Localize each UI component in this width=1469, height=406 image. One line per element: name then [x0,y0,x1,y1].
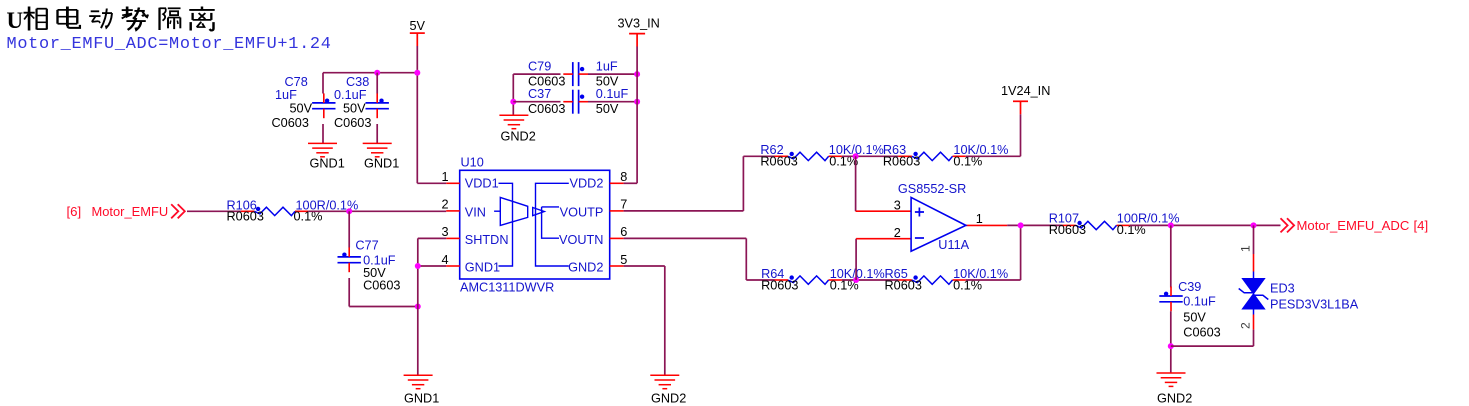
svg-text:U: U [7,8,24,33]
wire C78 top [322,73,324,94]
wire GND1 net vertical [417,238,419,375]
svg-text:R0603: R0603 [883,155,920,169]
junction output / feedback [1018,222,1024,228]
svg-text:50V: 50V [596,102,619,116]
capacitor C77 pins [348,247,350,257]
wire ED3 bottom [1253,330,1255,347]
IC U10 box [460,170,610,279]
capacitor C37 pins [563,101,573,103]
wire 5V to U10 pin1 [417,182,446,184]
svg-text:C0603: C0603 [1183,326,1220,340]
junction C38 top [374,70,380,76]
svg-text:Motor_EMFU_ADC: Motor_EMFU_ADC [1297,218,1410,233]
svg-text:50V: 50V [1183,310,1206,324]
junction opamp + feed [853,153,859,159]
svg-text:C0603: C0603 [334,116,371,130]
U10 internal output buffer triangle [533,208,545,216]
title char 相 [24,7,47,31]
wire R65 to output feedback [966,279,1021,281]
resistor R64 body [788,276,829,284]
capacitor C38 pins [376,93,378,103]
svg-text:50V: 50V [596,74,619,88]
title char 隔 [160,8,181,30]
wire C38 to GND1 [376,124,378,143]
svg-text:C0603: C0603 [272,116,309,130]
wire to R64 [746,279,774,281]
svg-text:GND1: GND1 [364,157,399,171]
svg-text:50V: 50V [290,102,313,116]
wire 5V rail horizontal [323,72,418,74]
wire R63 to 1V24 rail [966,155,1021,157]
U10 internal output fork [542,207,559,238]
svg-text:R0603: R0603 [885,279,922,293]
resistor R106 body [254,207,295,215]
wire C38 top [376,73,378,94]
wire down to opamp + [855,156,857,211]
junction GND1 net / pin4 [415,263,421,269]
svg-text:VOUTN: VOUTN [559,233,603,247]
wire R107 to output port [1130,224,1281,226]
power symbol 1V24_IN [1013,101,1028,114]
svg-text:Motor_EMFU_ADC=Motor_EMFU+1.24: Motor_EMFU_ADC=Motor_EMFU+1.24 [7,35,332,54]
svg-text:GND1: GND1 [310,157,345,171]
svg-text:C38: C38 [346,75,369,89]
ground GND1 symbol [404,375,433,388]
svg-text:0.1uF: 0.1uF [1183,294,1216,308]
wire R106 to U10 VIN [308,210,446,212]
capacitor C39 pins [1170,287,1172,297]
resistor R65 10K/0.1% pins [898,279,912,281]
junction C37 / 3V3 rail [634,99,640,105]
junction C37 left [510,99,516,105]
port Motor_EMFU_ADC chevrons [1281,218,1295,232]
resistor R63 body [912,152,953,160]
TVS diode ED3 pin 1 [1253,254,1255,272]
svg-text:3: 3 [894,198,901,212]
op-amp minus input sign [915,237,924,239]
junction C79 / 3V3 rail [634,71,640,77]
junction output / C39 [1168,222,1174,228]
U10 left pin stubs [446,182,460,184]
svg-text:C0603: C0603 [528,74,565,88]
svg-text:C37: C37 [528,87,551,101]
svg-text:0.1uF: 0.1uF [596,87,629,101]
capacitor C78 pins [323,93,325,103]
wire 3V3_IN rail vertical [636,47,638,184]
svg-text:C0603: C0603 [528,102,565,116]
wire R64 to R65 [842,279,899,281]
svg-text:ED3: ED3 [1270,282,1295,296]
ground GND2 symbol [650,375,679,388]
svg-text:6: 6 [620,225,627,239]
capacitor C77 symbol [338,256,361,258]
svg-text:GS8552-SR: GS8552-SR [898,182,966,196]
svg-text:R0603: R0603 [1049,223,1086,237]
wire input to R106 [187,210,241,212]
resistor R106 100R/0.1% pins [241,210,255,212]
svg-text:C77: C77 [355,238,378,252]
svg-text:GND2: GND2 [651,392,686,406]
wire U10 GND2 vertical [664,266,666,375]
wire R62 to R63 [842,155,899,157]
svg-text:5: 5 [620,253,627,267]
svg-text:50V: 50V [343,102,366,116]
wire feedback riser [1020,226,1022,281]
power symbol 5V [410,33,425,46]
svg-text:GND2: GND2 [1157,392,1192,406]
svg-text:2: 2 [442,198,449,212]
svg-text:1uF: 1uF [596,60,618,74]
junction C77 tap [346,208,352,214]
svg-text:R0603: R0603 [227,210,264,224]
svg-text:PESD3V3L1BA: PESD3V3L1BA [1270,298,1359,312]
svg-text:C39: C39 [1178,280,1201,294]
svg-text:VDD1: VDD1 [465,177,499,191]
wire 5V rail vertical [416,46,418,183]
capacitor C38 symbol [366,102,389,104]
resistor R63 10K/0.1% pins [898,155,912,157]
svg-text:C79: C79 [528,60,551,74]
svg-text:VDD2: VDD2 [570,177,604,191]
wire up to opamp - [855,239,857,280]
wire C77 bottom [348,278,350,307]
svg-text:C78: C78 [285,75,308,89]
wire C77 top [348,211,350,247]
ground GND1 symbol [363,143,392,156]
svg-text:3: 3 [442,225,449,239]
junction 5V rail / cap bank [414,70,420,76]
svg-text:AMC1311DWVR: AMC1311DWVR [460,280,554,294]
resistor R107 body [1076,221,1117,229]
wire C39 top [1170,225,1172,287]
svg-text:8: 8 [620,170,627,184]
svg-text:4: 4 [442,253,449,267]
ground GND2 symbol [499,115,528,128]
power symbol 3V3_IN [629,34,645,47]
wire U10 GND2 pin [624,265,665,267]
capacitor C79 symbol [572,62,574,86]
junction C39 / ED3 return [1168,343,1174,349]
svg-text:GND1: GND1 [404,392,439,406]
wire VOUTP riser [742,156,744,211]
svg-text:SHTDN: SHTDN [465,233,509,247]
svg-text:3V3_IN: 3V3_IN [618,17,660,31]
junction GND1 net / C77 [415,304,421,310]
capacitor C39 symbol [1159,295,1182,297]
svg-text:[6]: [6] [67,204,82,219]
svg-text:R0603: R0603 [761,279,798,293]
wire to R62 [743,155,774,157]
op-amp plus input sign [915,208,924,217]
wire VOUTN horizontal [624,237,747,239]
svg-text:1: 1 [976,212,983,226]
wire VOUTP horizontal [624,210,744,212]
wire C37 right [588,101,637,103]
op-amp U11A triangle [911,197,966,251]
U10 right pin stubs [610,182,624,184]
svg-text:1: 1 [442,170,449,184]
ground GND1 symbol [308,143,337,156]
wire U10 GND1 pin to net [418,265,446,267]
svg-text:5V: 5V [410,19,426,33]
svg-text:U11A: U11A [938,238,969,252]
svg-text:U10: U10 [461,156,484,170]
svg-text:2: 2 [1239,322,1253,329]
capacitor C78 symbol [312,102,335,104]
resistor R62 10K/0.1% pins [775,155,789,157]
svg-text:7: 7 [620,198,627,212]
svg-text:Motor_EMFU: Motor_EMFU [92,204,169,219]
TVS diode ED3 pin 2 [1253,315,1255,330]
wire C37 left [513,101,560,103]
svg-text:GND2: GND2 [501,130,536,144]
svg-text:GND2: GND2 [568,261,603,275]
svg-text:C0603: C0603 [363,279,400,293]
TVS diode ED3 symbol [1239,272,1269,315]
svg-text:1uF: 1uF [275,88,297,102]
wire ED3 top [1253,225,1255,254]
U10 internal VIN stub [494,210,500,212]
capacitor C79 pins [563,73,573,75]
svg-text:1V24_IN: 1V24_IN [1001,84,1050,98]
wire C77 to GND1 net [349,306,418,308]
U10 internal input buffer triangle [500,197,527,225]
svg-text:[4]: [4] [1414,218,1429,233]
U10 internal right rail [536,183,569,266]
svg-text:GND1: GND1 [465,261,500,275]
title char 电 [58,7,80,28]
U10 internal left rail [499,183,513,266]
title char 动 [89,9,112,29]
svg-text:0.1uF: 0.1uF [334,88,367,102]
junction output / ED3 [1251,222,1257,228]
wire C79 left [513,73,560,75]
ground GND2 symbol [1157,373,1186,386]
resistor R64 10K/0.1% pins [775,279,789,281]
resistor R65 body [912,276,953,284]
wire C79 right [588,73,637,75]
wire ED3 return [1171,345,1254,347]
resistor R62 body [788,152,829,160]
wire 1V24_IN drop [1020,114,1022,156]
title char 离 [189,7,214,31]
wire SHTDN to GND1 net [418,237,446,239]
junction opamp - feed [853,277,859,283]
wire 3V3 rail to U10 pin8 [624,182,638,184]
svg-text:2: 2 [894,226,901,240]
resistor R107 100R/0.1% pins [1062,224,1076,226]
wire output to R107 [1007,224,1062,226]
wire C78 to GND1 [322,124,324,143]
capacitor C37 symbol [572,90,574,114]
wire C39 bottom [1170,311,1172,373]
wire VOUTN dropper [745,238,747,280]
svg-text:R0603: R0603 [760,155,797,169]
op-amp U11A pins [856,210,912,212]
wire C79/C37 left vertical [512,74,514,115]
svg-text:VOUTP: VOUTP [560,205,604,219]
svg-text:VIN: VIN [465,205,486,219]
port Motor_EMFU chevrons [171,204,185,218]
title char 势 [122,7,148,30]
svg-text:1: 1 [1239,245,1253,252]
